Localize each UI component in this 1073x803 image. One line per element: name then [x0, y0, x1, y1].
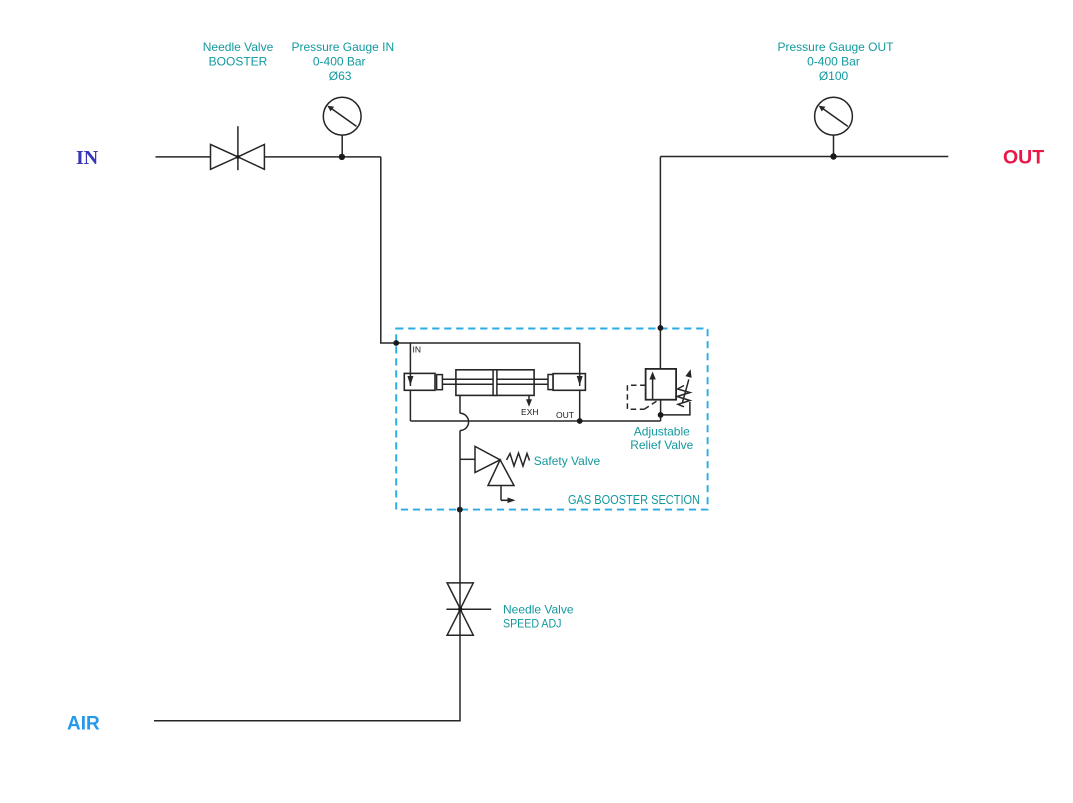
booster piston: [493, 370, 497, 396]
EXH stub arrow: [528, 395, 530, 402]
relief valve internal arrow up: [652, 378, 654, 399]
pressure gauge OUT G2: [815, 97, 853, 156]
wire OUT down to relief valve: [659, 157, 661, 370]
adjustable relief valve RV1 body: [646, 369, 677, 400]
arrow down in left cap: [407, 376, 413, 386]
booster B1 right end cap: [553, 374, 585, 391]
booster air cylinder: [456, 370, 534, 396]
safety valve spring: [507, 453, 530, 466]
svg-text:AIR: AIR: [67, 714, 100, 735]
safety valve SV1: [460, 458, 475, 460]
junction dot booster OUT: [577, 418, 583, 424]
booster right branch wire: [579, 343, 581, 421]
arrow down in right cap: [577, 376, 583, 386]
piston rod lines: [442, 379, 548, 384]
relief valve adjustment arrow: [682, 380, 689, 404]
svg-text:Ø63: Ø63: [329, 69, 352, 83]
svg-text:OUT: OUT: [556, 410, 574, 420]
svg-text:BOOSTER: BOOSTER: [209, 54, 268, 68]
svg-text:EXH: EXH: [521, 407, 538, 417]
svg-text:Needle Valve: Needle Valve: [203, 40, 274, 54]
junction dot relief valve top border: [658, 325, 664, 331]
svg-text:Needle Valve: Needle Valve: [503, 603, 574, 617]
relief valve outlet wire: [660, 400, 662, 421]
svg-text:Adjustable: Adjustable: [634, 424, 690, 438]
wire IN left segment: [156, 156, 211, 158]
booster rod bearing right: [548, 375, 553, 390]
svg-text:Safety Valve: Safety Valve: [534, 454, 601, 468]
relief valve spring return line: [661, 402, 690, 415]
svg-text:SPEED ADJ: SPEED ADJ: [503, 617, 562, 631]
safety line down through border to AIR: [459, 459, 461, 720]
svg-text:Pressure Gauge IN: Pressure Gauge IN: [291, 40, 394, 54]
junction dot valve1 center: [236, 155, 240, 159]
svg-text:0-400 Bar: 0-400 Bar: [807, 54, 860, 68]
safety valve exhaust arrow: [501, 499, 508, 501]
svg-text:IN: IN: [413, 345, 422, 355]
booster bottom wire to relief valve: [410, 420, 660, 422]
junction dot wire entering box: [393, 340, 399, 346]
junction dot relief outlet: [658, 412, 664, 418]
needle valve V1 BOOSTER: [211, 126, 265, 170]
booster left branch wire: [409, 343, 411, 421]
wire AIR horizontal: [154, 720, 461, 722]
wire cylinder bottom with hop over out wire: [459, 395, 461, 413]
booster B1 left end cap: [404, 373, 435, 390]
junction dot at gauge IN: [339, 154, 345, 160]
left cap inlet wire over cap: [409, 373, 411, 386]
svg-text:GAS BOOSTER SECTION: GAS BOOSTER SECTION: [568, 492, 700, 507]
wire corner down to booster inlet: [381, 157, 580, 343]
pressure gauge IN G1: [323, 97, 361, 157]
svg-text:OUT: OUT: [1003, 147, 1044, 169]
relief valve pilot dashed line: [627, 385, 657, 409]
svg-text:0-400 Bar: 0-400 Bar: [313, 54, 366, 68]
svg-text:Pressure Gauge OUT: Pressure Gauge OUT: [777, 40, 894, 54]
dashed enclosure GAS BOOSTER SECTION: [396, 329, 707, 510]
wire valve to corner: [264, 156, 380, 158]
booster rod bearing left: [437, 375, 443, 390]
junction dot safety line bottom border: [457, 507, 463, 513]
svg-text:Ø100: Ø100: [819, 69, 849, 83]
wire OUT top segment: [660, 156, 948, 158]
svg-text:Relief Valve: Relief Valve: [630, 438, 693, 452]
svg-text:IN: IN: [76, 147, 99, 169]
junction dot at gauge OUT: [830, 153, 836, 159]
right cap inlet wire over cap: [579, 374, 581, 386]
relief valve spring: [677, 386, 690, 407]
needle valve V2 SPEED ADJ: [446, 583, 491, 635]
